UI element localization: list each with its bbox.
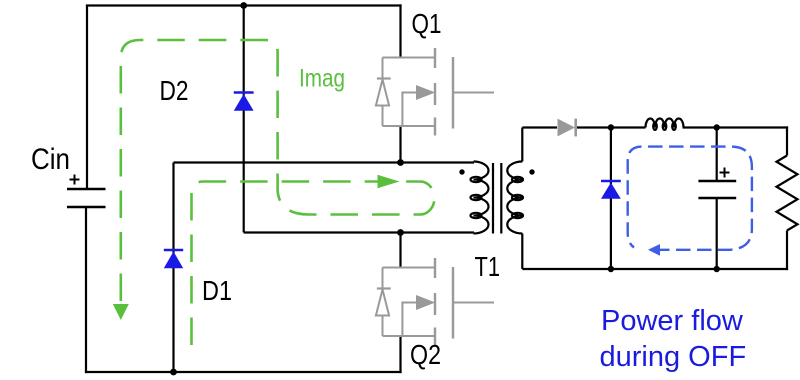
diode: freewheel (blue) [601,181,621,199]
diode D1 [164,250,183,268]
resistor: load [777,156,798,231]
svg-text:Q1: Q1 [412,8,442,39]
blue arrow: power flow direction (left) [648,244,660,256]
transformer T1 primary winding [471,162,489,234]
wire: Q1 drain drop [399,4,401,58]
wire: blue power-flow loop (dashed) [628,147,752,250]
capacitor: output [698,128,736,270]
transformer T1 core [493,163,501,234]
wire: primary bottom [244,231,474,233]
transformer T1 secondary winding [507,162,523,234]
wire: D1 branch vertical [172,163,174,373]
node: primary bottom / Q2 junction [397,229,404,236]
wire: Cin bottom to bottom rail [85,207,87,373]
svg-text:T1: T1 [475,251,501,282]
diode D2 [234,93,254,111]
node: top rail / D2 junction [240,2,247,9]
svg-text:D2: D2 [160,75,189,106]
node: secondary phase dot [529,169,534,174]
green arrow: Imag direction (right) [378,175,400,188]
svg-text:Imag: Imag [299,65,345,93]
wire: secondary top rail [522,126,788,128]
node: secondary bottom cap junction [714,266,720,272]
wire: Q2 source drop [399,336,401,373]
svg-text:Cin: Cin [31,143,70,176]
wire: secondary top left vertical [521,128,523,162]
node: secondary top cap junction [714,124,720,130]
svg-text:during OFF: during OFF [600,341,747,373]
wire: secondary bottom rail [522,268,788,270]
transistor Q1 (MOSFET with body diode) [376,48,494,136]
wire: D2 branch vertical [243,6,245,233]
wire: resistor bottom to rail [786,231,788,271]
node: secondary top freewheel junction [608,124,614,130]
wire: Q2 drain drop [399,233,401,269]
wire: bottom rail [85,371,402,373]
green arrow: Imag direction (down) [113,304,129,320]
wire: right side down to resistor [786,126,788,155]
svg-text:Power flow: Power flow [601,305,744,337]
inductor: output filter [646,119,684,130]
node: primary top / Q1 junction [397,159,404,166]
wire: green Imag current path (dashed) [121,40,435,345]
svg-text:D1: D1 [202,275,232,306]
wire: top rail [86,4,402,6]
capacitor Cin [67,175,106,208]
svg-text:Q2: Q2 [410,339,441,370]
wire: secondary bottom left vertical [521,234,523,270]
node: bottom rail / D1 junction [170,369,177,376]
node: primary phase dot [459,169,464,174]
wire: primary top [174,161,475,163]
wire: left vertical from top rail to Cin [86,6,88,190]
node: secondary bottom freewheel junction [608,266,614,272]
wire: freewheel diode branch [610,128,612,270]
diode: output rectifier (gray) [558,119,576,137]
transistor Q2 (MOSFET with body diode) [376,258,494,346]
wire: Q1 source to primary top [399,127,401,163]
